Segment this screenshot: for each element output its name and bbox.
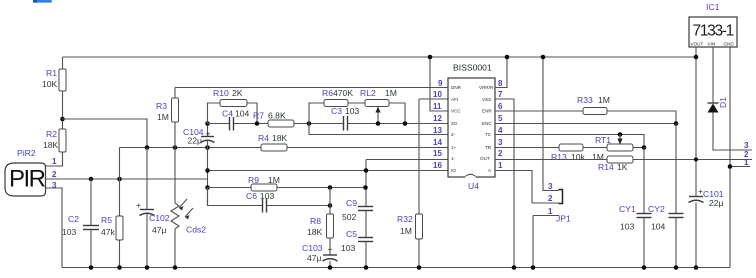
svg-text:R1: R1 [46,68,57,78]
junction C104 bottom [205,145,210,150]
thermistor RT1 [607,135,633,152]
blue artifact top-left [33,0,52,3]
svg-text:PiR2: PiR2 [17,148,36,158]
capacitor CY1 [643,148,645,214]
PIR sensor PIR2 body [5,163,46,196]
wire pin1 A to JP1 [495,171,532,204]
junction C102 bottom rail [145,265,150,270]
svg-text:1M: 1M [385,88,397,98]
capacitor C101 electrolytic [689,197,704,203]
svg-text:C2: C2 [68,214,79,224]
svg-text:RL2: RL2 [360,88,376,98]
junction R9 right [363,185,368,190]
wire R13 to RT1 [583,147,607,149]
wire 1IN- row to pin15 [366,159,448,161]
svg-text:1M: 1M [157,112,169,122]
svg-text:R13: R13 [551,152,567,162]
wire R9 row [208,187,366,189]
svg-text:5: 5 [498,114,503,123]
svg-text:C103: C103 [302,243,323,253]
wire C2 column [90,179,92,226]
wire C102 column [146,148,148,210]
jumper shunt bracket JP1 [559,190,563,204]
svg-text:R2: R2 [46,129,57,139]
wire pin10 IB column [419,98,448,100]
svg-text:TC: TC [485,132,492,137]
svg-text:6: 6 [498,102,503,111]
svg-text:16: 16 [433,161,442,170]
svg-text:TR: TR [485,145,492,150]
junction VOUT rail [694,55,699,60]
svg-text:VRR/R: VRR/R [479,85,494,90]
junction C2 top [89,177,94,182]
svg-text:R9: R9 [248,175,259,185]
svg-text:104: 104 [235,109,250,119]
svg-text:Cds2: Cds2 [186,225,206,235]
svg-text:18K: 18K [272,133,288,143]
svg-text:U4: U4 [468,181,479,191]
resistor R4 [261,144,287,151]
wire GND pin [729,47,731,268]
wire bias to C102 column [63,119,148,148]
svg-text:RT1: RT1 [595,135,611,145]
resistor R2 [59,129,66,152]
svg-text:2O: 2O [451,121,458,126]
svg-text:1M: 1M [268,175,280,185]
wire C9 to C5 [365,211,367,238]
resistor R5 [116,216,123,240]
svg-text:CY1: CY1 [619,204,636,214]
svg-text:1M: 1M [400,226,412,236]
svg-text:3: 3 [52,181,57,190]
capacitor C3 [344,116,348,131]
svg-text:2K: 2K [232,88,243,98]
diode D1 [708,103,719,113]
svg-text:103: 103 [341,243,356,253]
resistor R10 [208,103,221,124]
wire bottom GND rail [62,267,730,269]
svg-text:R7: R7 [253,111,264,121]
svg-text:R3: R3 [156,101,167,111]
svg-text:15: 15 [433,149,442,158]
junction R3/Cds2 [173,145,178,150]
junction R9 left [205,185,210,190]
junction C6 right on R8 column [328,203,333,208]
junction R32 bottom rail [417,265,422,270]
wire R5 column [119,148,121,217]
junction R5 top on pin2 line [117,177,122,182]
svg-text:D1: D1 [718,97,728,108]
wire 1+ node horizontal [120,147,449,149]
junction R5 bottom rail [117,265,122,270]
svg-text:104: 104 [651,222,666,232]
wire top VCC rail [63,56,697,58]
svg-text:12: 12 [433,114,442,123]
svg-text:1K: 1K [617,162,628,172]
capacitor C102 electrolytic [136,200,155,216]
svg-text:10K: 10K [42,79,58,89]
wire D1 to connector pin3 [713,113,752,151]
svg-text:18K: 18K [43,140,59,150]
svg-text:VIN: VIN [708,42,716,47]
wire RT1 right [633,147,644,149]
junction CY1 bottom rail [642,265,647,270]
svg-text:R32: R32 [397,214,413,224]
svg-text:PIR: PIR [9,166,46,193]
wire C6 row [208,188,263,206]
photoresistor Cds2 [174,148,176,204]
svg-text:2: 2 [498,149,503,158]
svg-text:7133-1: 7133-1 [693,23,734,40]
wire R1 to R2 [62,91,64,129]
svg-text:10k: 10k [571,152,586,162]
svg-text:JP1: JP1 [556,214,571,224]
svg-text:C6: C6 [246,191,257,201]
capacitor C9 [358,207,373,211]
svg-text:10: 10 [433,90,442,99]
svg-text:2: 2 [52,170,57,179]
junction 1OUT left [205,168,210,173]
wire pin8 VRF to rail [495,57,507,88]
svg-text:13: 13 [433,126,442,135]
wire pin11 VCC [430,57,448,111]
resistor R8 [329,188,331,215]
svg-text:C4: C4 [222,109,233,119]
wire 2IN- to pin13 [309,124,448,135]
svg-text:1+: 1+ [451,145,457,150]
svg-text:+: + [136,200,141,210]
wire OUT to edge [633,159,752,161]
svg-text:+: + [328,244,333,254]
junction 2IN- feedback node [307,121,312,126]
junction C5 bottom rail [364,265,369,270]
junction RL2 right [403,121,408,126]
svg-text:VCC: VCC [451,109,461,114]
svg-text:R10: R10 [213,88,229,98]
svg-text:C102: C102 [149,213,170,223]
svg-text:14: 14 [433,138,442,147]
svg-text:1: 1 [498,161,503,170]
junction C101 bottom rail [694,265,699,270]
potentiometer RL2 [365,100,389,124]
svg-text:103: 103 [345,106,360,116]
svg-text:R5: R5 [101,215,112,225]
svg-text:470K: 470K [333,88,353,98]
svg-text:9: 9 [438,79,443,88]
capacitor CY2 [675,124,677,214]
capacitor C5 [358,238,373,242]
svg-text:3: 3 [498,138,503,147]
junction 2IN- node left [205,121,210,126]
resistor R14 [607,156,633,163]
resistor R32 [416,214,423,239]
svg-text:3: 3 [548,182,553,191]
junction GND pin1 [728,164,733,169]
wire R2 to PIR pin1 [46,152,63,166]
svg-text:22μ: 22μ [188,136,203,146]
svg-text:C5: C5 [346,229,357,239]
capacitor C104 electrolytic [207,124,209,137]
junction ENC/CY2 [674,121,679,126]
svg-text:C3: C3 [331,106,342,116]
svg-text:R6: R6 [322,88,333,98]
wire first stage output row [208,123,230,125]
svg-text:VOUT: VOUT [691,42,704,47]
svg-text:47k: 47k [101,227,116,237]
svg-text:DNR: DNR [451,85,462,90]
wire C5 to rail [365,242,367,268]
svg-text:2: 2 [548,194,553,203]
wire VOUT pin [695,47,697,197]
capacitor C2 [83,226,99,230]
wire 1IN- to C9 column [365,160,367,207]
svg-text:1-: 1- [451,156,456,161]
svg-text:VSS: VSS [482,97,491,102]
wire pin5 ENC row [495,123,676,125]
svg-text:R4: R4 [258,133,269,143]
capacitor C6 [263,199,267,213]
junction pin8 rail [505,55,510,60]
capacitor C4 [230,117,234,131]
svg-text:1M: 1M [598,95,610,105]
svg-text:6.8K: 6.8K [268,111,286,121]
resistor R3 [174,88,176,99]
U4 internal pin names [451,85,494,173]
wire C104 column down [207,148,209,206]
wire 1OUT row to pin16 [208,170,449,172]
wire JP1 pin1 stub [533,215,559,217]
svg-text:22μ: 22μ [709,198,724,208]
wire pin9 VC row [175,87,448,89]
svg-text:3: 3 [744,141,749,150]
svg-text:7: 7 [498,90,503,99]
svg-text:R33: R33 [577,95,593,105]
wire pin6 ENR row [495,110,583,112]
wire R33 to CY2 column [607,111,676,124]
wire left column top [62,57,64,69]
wire connector pin1 stub [730,166,750,168]
IC U4 BISS0001 [448,78,495,177]
junction RT1/CY1 [642,145,647,150]
svg-text:18K: 18K [307,227,323,237]
svg-text:ENC: ENC [482,121,492,126]
svg-text:AFI: AFI [451,97,458,102]
resistor R1 [59,69,66,91]
capacitor C103 electrolytic [329,238,331,255]
junction VCC rail [428,55,433,60]
regulator IC1 7133-1 [689,17,737,47]
junction C102 top [145,145,150,150]
junction R1/R2 [60,117,65,122]
junction RL2 wiper [376,121,381,126]
junction Cds2 bottom rail [173,265,178,270]
junction JP1 pin1 rail [531,265,536,270]
junction C103 bottom rail [328,265,333,270]
wire pin2 OUT row [495,159,607,161]
wire VIN pin [712,47,714,103]
wire PIR pin2 line [46,178,208,180]
junction R8 top [328,185,333,190]
wire PIR pin3 to bottom rail [46,188,63,268]
junction C2 bottom rail [89,265,94,270]
svg-text:1: 1 [744,158,749,167]
svg-text:IC1: IC1 [706,2,720,12]
junction 1OUT crossing C9 column [364,168,369,173]
junction RT1 wiper top [618,132,623,137]
svg-text:4: 4 [498,126,503,135]
junction R10 right [255,121,260,126]
svg-text:103: 103 [62,227,77,237]
wire JP1 pin1 to rail [532,216,534,268]
resistor R6 [309,103,324,124]
svg-text:IO: IO [451,168,456,173]
svg-text:CY2: CY2 [648,204,665,214]
junction VOUT/OUT row [694,157,698,161]
svg-text:+: + [206,129,211,139]
resistor R7 [268,120,294,127]
wire pin4 TC row [495,135,644,148]
junction CY2 bottom rail [674,265,679,270]
wire pin7 VSS to ground [495,99,514,268]
svg-text:103: 103 [260,191,275,201]
svg-text:1M: 1M [592,152,604,162]
svg-text:OUT: OUT [480,156,490,161]
svg-text:502: 502 [342,212,357,222]
junction JP1 pin3 rail [541,55,546,60]
resistor R33 [583,108,607,115]
svg-text:8: 8 [498,79,503,88]
wire JP1 pin2 stub [532,202,559,204]
svg-text:1: 1 [52,157,57,166]
svg-text:2-: 2- [451,132,456,137]
resistor R13 [559,144,583,151]
svg-text:1: 1 [548,207,553,216]
svg-text:C9: C9 [346,198,357,208]
jumper JP1 [543,57,559,191]
svg-text:47μ: 47μ [152,225,167,235]
svg-text:47μ: 47μ [307,253,322,263]
svg-text:103: 103 [620,222,635,232]
wire pin3 TR row [495,147,559,149]
svg-text:11: 11 [433,102,442,111]
svg-text:R8: R8 [310,216,321,226]
svg-text:ENR: ENR [482,109,492,114]
resistor R9 [251,184,277,191]
junction VSS bottom rail [512,265,517,270]
svg-text:BISS0001: BISS0001 [453,63,492,73]
svg-text:GND: GND [724,42,735,47]
svg-text:R14: R14 [598,162,614,172]
